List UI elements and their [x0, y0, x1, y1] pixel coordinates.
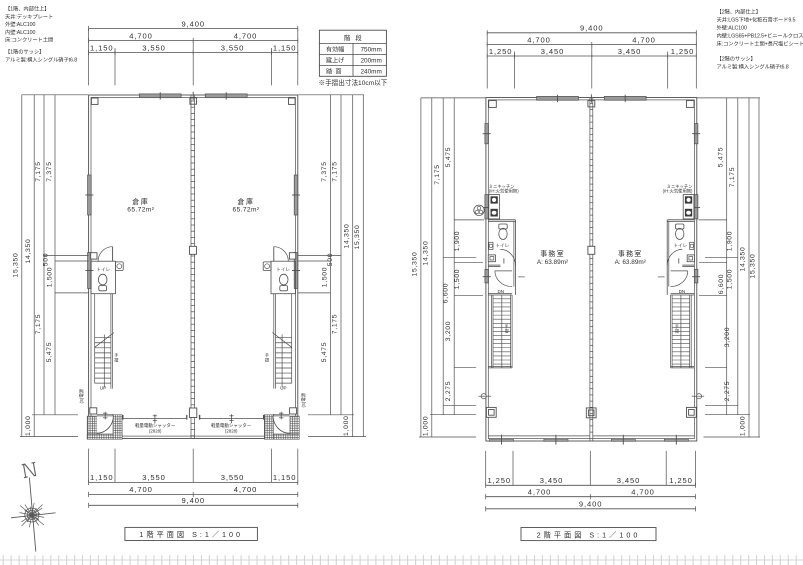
- north compass: [11, 478, 56, 552]
- svg-text:5,475: 5,475: [321, 342, 328, 363]
- 1F top dimension row 1150/3550/3550/1150: [89, 43, 298, 55]
- 1F center dividing wall: [189, 95, 196, 439]
- 2F right dim line 5475/1900/1500/3200/2275: [717, 98, 733, 415]
- 1F entrance corner hatch left (SW): [87, 408, 122, 439]
- svg-text:1,000: 1,000: [25, 415, 32, 436]
- svg-text:事務室: 事務室: [618, 249, 643, 258]
- svg-text:500: 500: [42, 253, 49, 266]
- 1F shutter right unit: [200, 414, 264, 433]
- svg-text:9,400: 9,400: [181, 19, 205, 28]
- svg-text:天井:デッキプレート: 天井:デッキプレート: [5, 12, 53, 20]
- svg-text:4,700: 4,700: [234, 31, 258, 40]
- svg-text:4,700: 4,700: [632, 35, 656, 44]
- 1F bottom dimension extension lines: [89, 449, 298, 483]
- 1F room label right 倉庫 65.72m2: [233, 197, 260, 214]
- svg-text:7,175: 7,175: [332, 314, 339, 335]
- 2F right dim line 15350: [697, 98, 760, 437]
- 1F bottom dimension row 4700+4700: [89, 485, 298, 497]
- 2F corner columns: [486, 100, 696, 417]
- 2F top dimension extension lines: [487, 33, 696, 89]
- svg-text:トイレ: トイレ: [673, 243, 687, 248]
- svg-text:2,275: 2,275: [445, 381, 452, 402]
- 1F bottom dimension row 1150/3550/3550/1150: [89, 473, 298, 485]
- svg-text:4,700: 4,700: [528, 488, 552, 497]
- 2F right dim line 14350/1000: [740, 98, 750, 437]
- svg-text:3,200: 3,200: [445, 321, 452, 342]
- svg-text:天井:LGS下地+化粧石膏ボード9.5: 天井:LGS下地+化粧石膏ボード9.5: [717, 16, 796, 24]
- svg-text:【1階、内部仕上】: 【1階、内部仕上】: [5, 5, 49, 13]
- svg-text:1,500: 1,500: [727, 269, 734, 290]
- svg-text:15,350: 15,350: [412, 252, 419, 277]
- svg-text:7,175: 7,175: [35, 314, 42, 335]
- 2F top wall windows: [537, 94, 647, 102]
- 2F interior right unit (kitchen/toilet/stairs): [658, 184, 704, 399]
- 2F left dim ticks: [419, 220, 484, 437]
- 2F top dimension row 1250/3450/3450/1250: [487, 47, 696, 59]
- svg-text:3,450: 3,450: [541, 47, 565, 56]
- svg-text:1,500: 1,500: [322, 267, 329, 288]
- svg-text:(S)電源: (S)電源: [300, 392, 307, 407]
- svg-text:アルミ製:横入シングル硝子t6.8: アルミ製:横入シングル硝子t6.8: [717, 63, 789, 71]
- svg-text:1,150: 1,150: [273, 473, 297, 482]
- svg-text:摺: 摺: [675, 329, 679, 334]
- svg-text:7,175: 7,175: [434, 164, 441, 185]
- svg-text:床:コンクリート土間: 床:コンクリート土間: [5, 36, 53, 44]
- svg-text:3,550: 3,550: [221, 43, 245, 52]
- 2F left dim line 15350: [412, 98, 486, 437]
- svg-text:外壁:ALC100: 外壁:ALC100: [717, 24, 747, 32]
- svg-text:65.72m²: 65.72m²: [127, 207, 154, 214]
- svg-text:9,400: 9,400: [181, 496, 205, 505]
- 1F corner columns: [91, 98, 295, 105]
- 1F left dim line 14350/1000: [25, 95, 34, 437]
- 2F left dim line 5475/1900/1500/3200/2275: [445, 98, 461, 415]
- 1F bottom dimension row 9400: [89, 496, 298, 508]
- 2F center dividing wall: [588, 98, 595, 442]
- svg-text:A: 63.89m²: A: 63.89m²: [615, 259, 646, 266]
- stair spec table: [319, 30, 386, 76]
- svg-text:6,600: 6,600: [718, 274, 725, 295]
- 2F left dim line 7175/6600: [434, 98, 449, 415]
- svg-text:5,475: 5,475: [717, 147, 724, 168]
- 1F top dimension row 9400: [89, 19, 298, 31]
- svg-text:トイレ: トイレ: [276, 267, 290, 272]
- svg-text:200mm: 200mm: [361, 57, 382, 64]
- svg-text:倉庫: 倉庫: [238, 197, 255, 206]
- svg-text:(IH:火気使用無): (IH:火気使用無): [489, 188, 519, 195]
- svg-text:1階平面図 S:1／100: 1階平面図 S:1／100: [139, 530, 243, 539]
- svg-text:6,600: 6,600: [442, 283, 449, 304]
- svg-text:1,150: 1,150: [90, 473, 114, 482]
- svg-text:摺: 摺: [505, 329, 509, 334]
- svg-text:3,450: 3,450: [540, 476, 564, 485]
- svg-text:14,350: 14,350: [740, 247, 747, 272]
- bottom ruler strip: [0, 555, 803, 565]
- 2F bottom dimension row 9400: [486, 500, 696, 512]
- svg-text:65.72m²: 65.72m²: [233, 207, 260, 214]
- 1F shutter left unit: [123, 414, 187, 433]
- svg-text:1,250: 1,250: [489, 47, 513, 56]
- 1F entrance corner hatch right (SE): [264, 408, 299, 439]
- svg-text:1,250: 1,250: [487, 476, 511, 485]
- svg-text:1,250: 1,250: [669, 476, 693, 485]
- 1F stairs right unit: [265, 294, 292, 391]
- 1F top dimension row 4700+4700: [89, 31, 298, 43]
- svg-text:3,550: 3,550: [221, 473, 245, 482]
- svg-text:2階平面図 S:1／100: 2階平面図 S:1／100: [537, 530, 641, 539]
- 1F toilet right unit: [263, 247, 295, 294]
- 1F top wall windows: [139, 92, 247, 100]
- svg-text:3,550: 3,550: [142, 43, 166, 52]
- svg-text:15,350: 15,350: [750, 254, 757, 279]
- svg-text:トイレ: トイレ: [495, 243, 509, 248]
- svg-text:UP: UP: [100, 385, 106, 390]
- 1F left dim line 7375/1500/5475: [46, 95, 55, 415]
- 2F title box 2階平面図 S:1/100: [521, 528, 656, 541]
- 2F top dimension row 9400: [487, 24, 696, 36]
- 1F side wall windows: [85, 175, 300, 289]
- 2F top dimension row 4700+4700: [487, 35, 696, 47]
- svg-text:階段: 階段: [344, 33, 367, 42]
- 2F bottom dimension row 1250/3450/3450/1250: [486, 476, 696, 488]
- svg-text:UP: UP: [280, 385, 286, 390]
- svg-text:1,150: 1,150: [90, 43, 114, 52]
- svg-text:7,175: 7,175: [35, 161, 42, 182]
- svg-text:4,700: 4,700: [129, 31, 153, 40]
- 2F room label right 事務室 63.89m2: [615, 249, 646, 266]
- svg-text:DN: DN: [497, 289, 504, 294]
- svg-text:外壁:ALC100: 外壁:ALC100: [5, 20, 35, 28]
- svg-text:15,350: 15,350: [13, 253, 20, 278]
- 1F left dim ticks: [20, 256, 89, 437]
- svg-text:4,700: 4,700: [631, 488, 655, 497]
- 2F right dim line 7175/6600: [718, 98, 738, 415]
- 1F stairs left unit: [95, 294, 119, 391]
- 1F toilet left unit: [91, 247, 124, 294]
- svg-text:1,150: 1,150: [273, 43, 297, 52]
- svg-text:1,900: 1,900: [454, 231, 461, 252]
- svg-text:摺: 摺: [114, 357, 118, 364]
- 1F right dim line 7375/1500/5475: [321, 95, 330, 415]
- svg-text:1,500: 1,500: [47, 267, 54, 288]
- svg-text:5,475: 5,475: [445, 147, 452, 168]
- 2F interior finish spec text: [717, 8, 803, 71]
- svg-text:750mm: 750mm: [361, 46, 382, 53]
- svg-text:14,350: 14,350: [422, 241, 429, 266]
- svg-text:4,700: 4,700: [129, 485, 153, 494]
- 1F right dim line 14350/1000: [343, 95, 353, 437]
- 2F interior left unit (kitchen/toilet/stairs): [474, 184, 525, 399]
- 1F right dim line 15350: [298, 95, 364, 437]
- svg-text:3,450: 3,450: [618, 47, 642, 56]
- svg-text:3,550: 3,550: [142, 473, 166, 482]
- svg-text:240mm: 240mm: [361, 68, 382, 75]
- svg-text:有効幅: 有効幅: [326, 45, 344, 53]
- 2F right dim ticks: [699, 220, 761, 437]
- svg-text:1,000: 1,000: [740, 416, 747, 437]
- svg-text:倉庫: 倉庫: [132, 197, 149, 206]
- 2F left dim line 14350/1000: [422, 98, 431, 437]
- svg-text:【2階、内部仕上】: 【2階、内部仕上】: [717, 8, 761, 16]
- 2F room label left 事務室 63.89m2: [537, 249, 568, 266]
- svg-text:踏面: 踏面: [326, 67, 345, 75]
- svg-text:床:コンクリート土間+長尺塩ビシート: 床:コンクリート土間+長尺塩ビシート: [717, 40, 803, 48]
- svg-text:(2828): (2828): [149, 428, 162, 433]
- svg-text:15,350: 15,350: [354, 225, 361, 250]
- svg-text:1,250: 1,250: [671, 47, 695, 56]
- svg-text:7,175: 7,175: [729, 167, 736, 188]
- svg-text:内壁:ALC100: 内壁:ALC100: [5, 28, 35, 36]
- svg-text:7,375: 7,375: [46, 161, 53, 182]
- 1F room label left 倉庫 65.72m2: [127, 197, 154, 214]
- 2F side wall windows: [483, 124, 700, 283]
- svg-text:4,700: 4,700: [527, 35, 551, 44]
- svg-text:1,000: 1,000: [423, 416, 430, 437]
- 1F title box 1階平面図 S:1/100: [125, 527, 258, 540]
- svg-text:※手摺出寸法10cm以下: ※手摺出寸法10cm以下: [319, 78, 388, 87]
- svg-text:アルミ製:横入シングル硝子t6.8: アルミ製:横入シングル硝子t6.8: [5, 55, 77, 63]
- svg-text:(IH:火気使用無): (IH:火気使用無): [663, 188, 693, 195]
- svg-text:トイレ: トイレ: [96, 267, 110, 272]
- svg-text:2,275: 2,275: [724, 381, 731, 402]
- svg-text:(2828): (2828): [225, 428, 238, 433]
- svg-text:4,700: 4,700: [234, 485, 258, 494]
- svg-text:A: 63.89m²: A: 63.89m²: [537, 259, 568, 266]
- svg-text:(S)電源: (S)電源: [78, 388, 85, 403]
- 1F left dim line 15350: [13, 95, 89, 437]
- svg-text:14,350: 14,350: [343, 224, 350, 249]
- svg-text:摺: 摺: [265, 357, 269, 364]
- 1F right dim ticks: [298, 256, 366, 437]
- svg-text:5,475: 5,475: [46, 342, 53, 363]
- 1F left dim line 7175/500/7175: [35, 95, 49, 415]
- svg-text:DN: DN: [679, 289, 686, 294]
- svg-text:3,200: 3,200: [724, 327, 731, 348]
- 1F outer wall: [89, 95, 298, 439]
- svg-text:3,450: 3,450: [617, 476, 641, 485]
- 2F bottom dimension row 4700+4700: [486, 488, 696, 500]
- svg-text:内壁:LGS65+PB12.5+ビニールクロス: 内壁:LGS65+PB12.5+ビニールクロス: [717, 32, 803, 40]
- svg-text:事務室: 事務室: [540, 249, 565, 258]
- 1F interior finish spec text: [5, 5, 77, 64]
- svg-text:7,175: 7,175: [332, 161, 339, 182]
- svg-text:蹴上げ: 蹴上げ: [326, 56, 344, 64]
- 2F outer wall: [486, 98, 697, 442]
- svg-text:9,400: 9,400: [580, 24, 604, 33]
- svg-text:14,350: 14,350: [25, 239, 32, 264]
- svg-text:1,900: 1,900: [727, 231, 734, 252]
- svg-text:1,500: 1,500: [454, 269, 461, 290]
- 2F bottom dimension extension lines: [486, 451, 696, 485]
- 1F top dimension extension lines: [89, 29, 298, 86]
- svg-text:7,375: 7,375: [321, 161, 328, 182]
- 1F right dim line 7175/500/7175: [327, 95, 341, 415]
- svg-text:【1階のサッシ】: 【1階のサッシ】: [5, 48, 44, 56]
- svg-text:1,000: 1,000: [343, 415, 350, 436]
- svg-text:【2階のサッシ】: 【2階のサッシ】: [717, 55, 756, 63]
- svg-text:9,400: 9,400: [579, 500, 603, 509]
- 2F bottom wall windows: [488, 435, 694, 445]
